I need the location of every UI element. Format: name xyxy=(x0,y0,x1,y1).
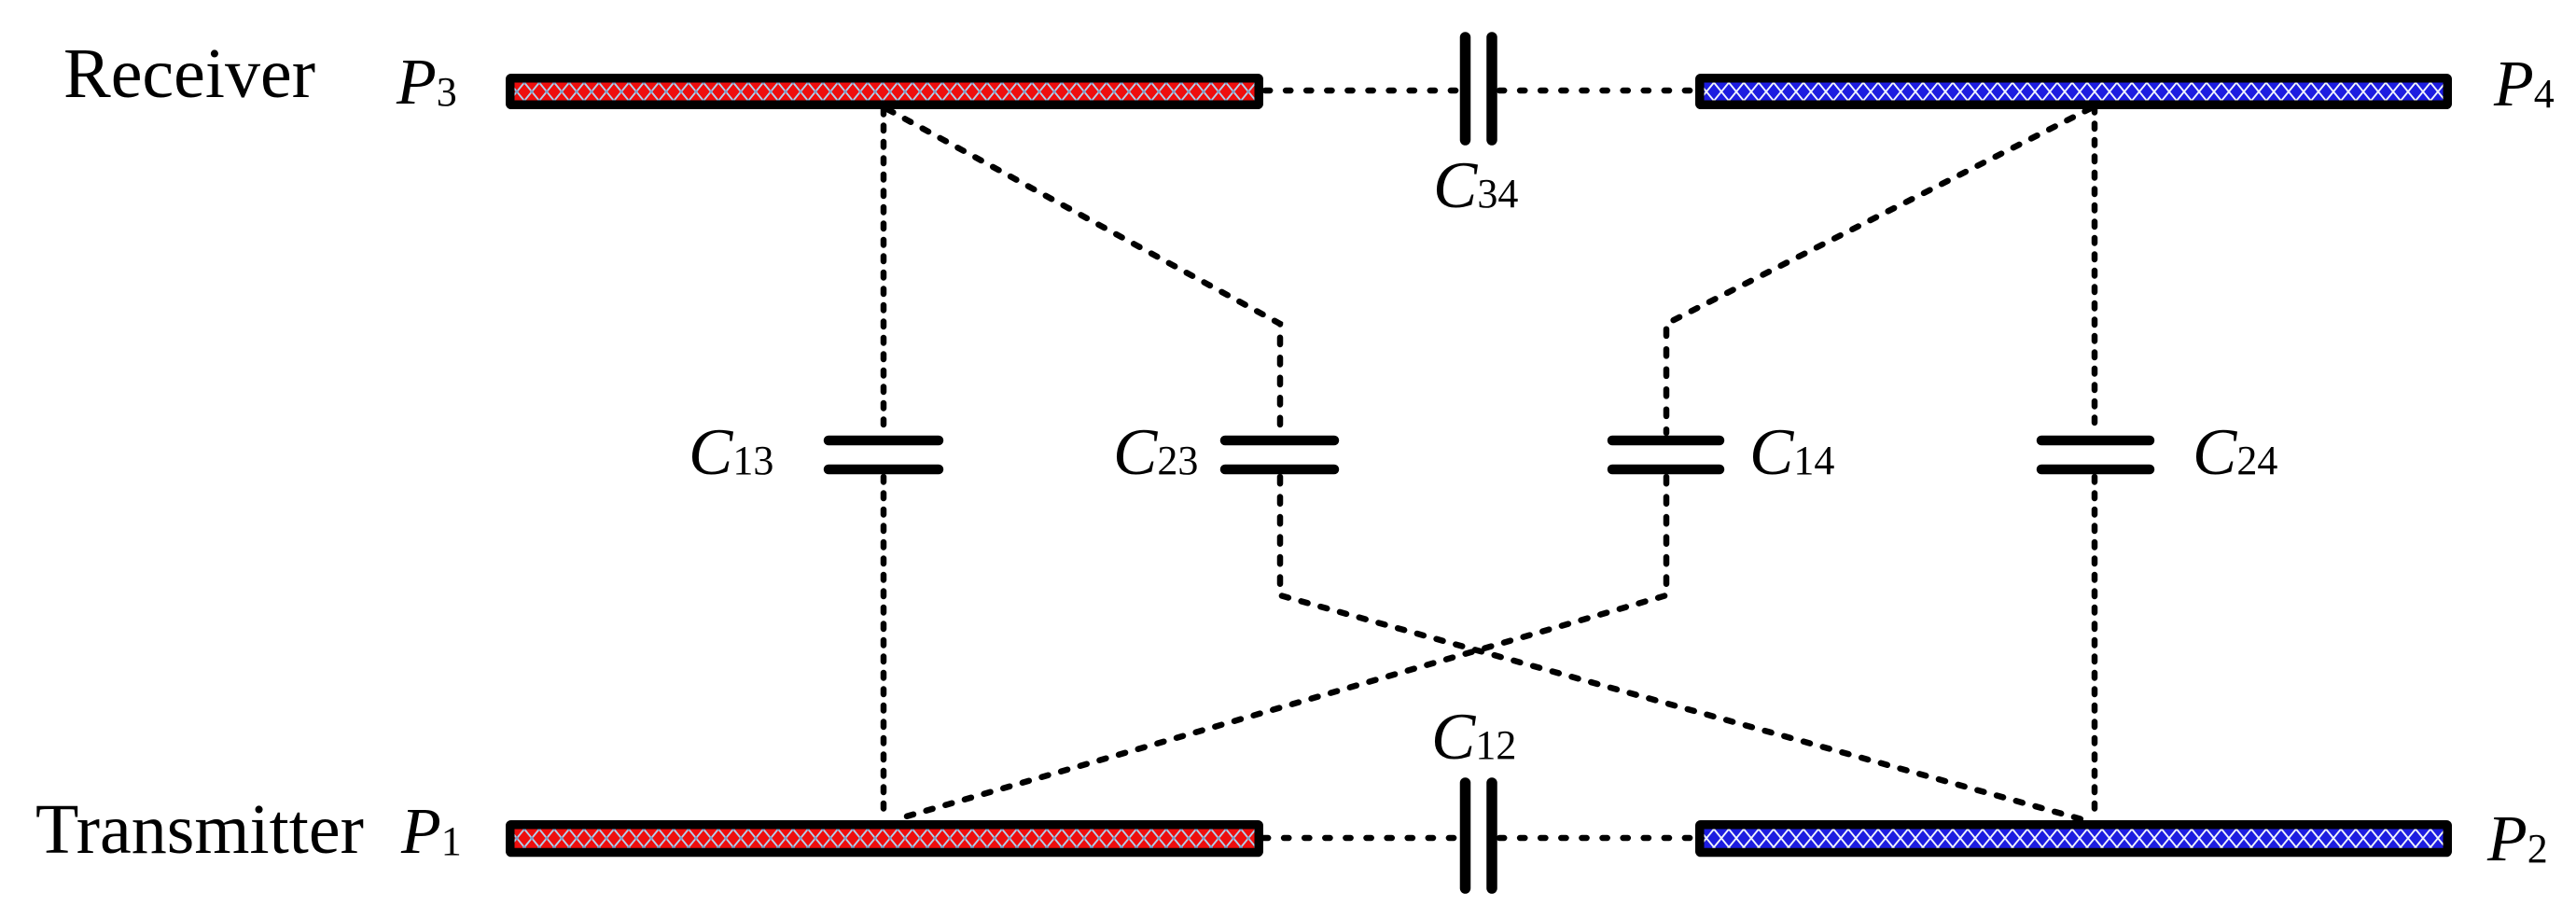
svg-text:C14: C14 xyxy=(1749,416,1834,489)
wire C24 down to P2 xyxy=(2092,477,2098,819)
svg-text:P3: P3 xyxy=(396,47,457,119)
svg-text:C23: C23 xyxy=(1113,416,1198,489)
capacitor C34 xyxy=(1466,37,1493,140)
plate P2 (transmitter blue) xyxy=(1700,825,2448,853)
svg-text:P2: P2 xyxy=(2486,803,2548,875)
wire C13 down to P1 xyxy=(881,477,887,818)
wire P1 to C12 xyxy=(1263,835,1458,842)
svg-text:C34: C34 xyxy=(1433,149,1518,222)
wire P3 down to C13 xyxy=(881,109,887,433)
wire P4 down to C24 xyxy=(2092,107,2098,433)
wire P3 to C34 xyxy=(1265,88,1458,94)
svg-text:Transmitter: Transmitter xyxy=(35,790,364,869)
plate P1 (transmitter red) xyxy=(510,825,1260,853)
capacitor C23 xyxy=(1225,440,1334,469)
wire C34 to P4 xyxy=(1499,88,1694,94)
capacitor C24 xyxy=(2041,440,2150,469)
wire C14 diagonal to P1 xyxy=(897,477,1666,819)
wire C12 to P2 xyxy=(1499,835,1694,842)
wire C23 diagonal to P2 xyxy=(1280,477,2085,820)
plate P4 (receiver blue) xyxy=(1700,78,2448,105)
plate P3 (receiver red) xyxy=(510,78,1260,105)
capacitor C14 xyxy=(1612,440,1720,469)
svg-text:C12: C12 xyxy=(1431,701,1516,774)
wire P3 diagonal to C23 xyxy=(887,109,1280,433)
wire P4 diagonal to C14 xyxy=(1666,108,2091,433)
svg-text:C13: C13 xyxy=(689,416,773,489)
svg-text:Receiver: Receiver xyxy=(63,35,315,113)
capacitor C12 xyxy=(1466,783,1493,888)
svg-text:P4: P4 xyxy=(2493,49,2555,120)
svg-text:C24: C24 xyxy=(2193,416,2277,489)
svg-text:P1: P1 xyxy=(400,796,462,868)
capacitor C13 xyxy=(828,440,939,469)
